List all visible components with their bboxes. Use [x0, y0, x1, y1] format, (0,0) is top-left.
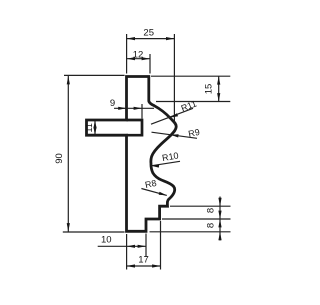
svg-text:15: 15 [204, 84, 215, 95]
dim 15 [151, 76, 230, 101]
leader R11 [151, 108, 193, 124]
leader R10 [151, 161, 180, 166]
leader R9 [152, 132, 198, 138]
svg-text:10: 10 [101, 234, 112, 245]
svg-text:8: 8 [206, 223, 217, 228]
dims 8 / 8 [150, 197, 231, 241]
dim 25 [127, 34, 175, 124]
groove inner wall [127, 120, 143, 135]
svg-text:9: 9 [110, 98, 115, 109]
svg-text:12: 12 [133, 50, 144, 61]
dim 9 [114, 104, 154, 119]
svg-text:11: 11 [84, 123, 94, 132]
dim 17 [127, 221, 161, 270]
leader R8 [141, 189, 166, 196]
svg-text:8: 8 [206, 208, 217, 213]
svg-text:90: 90 [54, 153, 65, 164]
dim 12 [127, 54, 150, 74]
svg-text:17: 17 [138, 255, 149, 266]
svg-text:25: 25 [143, 28, 154, 39]
dim 90 [63, 75, 125, 232]
dim 10 [98, 234, 146, 270]
dim 11 [94, 120, 96, 135]
profile outline [87, 77, 177, 232]
